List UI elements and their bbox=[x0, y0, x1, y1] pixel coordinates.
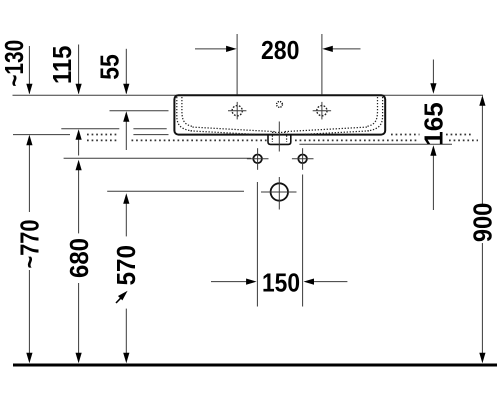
drain centre line bbox=[278, 122, 280, 152]
right fixing hole bbox=[292, 148, 314, 170]
svg-text:~770: ~770 bbox=[15, 220, 45, 269]
dimension 900 vertical bbox=[481, 103, 483, 354]
bowl right wall outer bbox=[367, 97, 382, 131]
bowl left wall outer bbox=[177, 97, 192, 131]
overflow hole bbox=[277, 102, 283, 108]
right tap hole bbox=[313, 102, 331, 120]
55 reference line bbox=[110, 110, 169, 112]
svg-text:570: 570 bbox=[111, 245, 141, 286]
svg-text:~130: ~130 bbox=[0, 40, 29, 87]
dotted row lower level bbox=[87, 139, 118, 141]
dotted row basin-bottom level bbox=[87, 134, 118, 136]
570 pointer arrow (diagonal) bbox=[116, 295, 124, 303]
~130 reference line bbox=[13, 134, 70, 136]
bowl right wall inner bbox=[367, 97, 378, 126]
left fixing hole bbox=[247, 148, 269, 170]
dimension 150 bbox=[211, 175, 347, 307]
svg-text:165: 165 bbox=[419, 102, 449, 146]
wall / rim reference line bbox=[13, 94, 484, 96]
svg-text:55: 55 bbox=[94, 54, 124, 80]
bowl floor right upper bbox=[283, 127, 367, 132]
short reference lines bbox=[13, 111, 452, 192]
basin inner bowl hidden lines (dotted) bbox=[177, 97, 383, 142]
svg-text:150: 150 bbox=[262, 267, 300, 297]
left tap hole bbox=[228, 102, 246, 120]
bowl left wall inner bbox=[182, 97, 193, 126]
svg-text:680: 680 bbox=[64, 238, 94, 278]
dimension 280 bbox=[195, 34, 361, 95]
bowl floor right lower bbox=[303, 131, 369, 135]
hidden installation dotted rows bbox=[87, 135, 478, 141]
svg-text:280: 280 bbox=[261, 35, 300, 65]
dimension 115 / 680 verticals bbox=[78, 45, 80, 355]
siphon outlet circle bbox=[261, 177, 297, 210]
680 reference line bbox=[64, 157, 251, 159]
svg-text:115: 115 bbox=[47, 46, 77, 85]
dimension 165 vertical bbox=[432, 60, 434, 211]
drain throat dotted bbox=[272, 131, 287, 133]
drain flange bbox=[268, 135, 291, 145]
dimension ~130 verticals bbox=[28, 46, 30, 354]
dimension 55 / 570 verticals bbox=[125, 49, 127, 354]
washbasin outer outline bbox=[174, 95, 385, 134]
svg-text:900: 900 bbox=[468, 203, 498, 243]
570 reference line bbox=[107, 190, 244, 192]
bowl floor left lower bbox=[191, 131, 257, 135]
floor line bbox=[13, 364, 497, 367]
115 reference line bbox=[61, 128, 119, 130]
165 reference line bbox=[299, 143, 452, 145]
bowl floor left upper bbox=[193, 127, 277, 132]
